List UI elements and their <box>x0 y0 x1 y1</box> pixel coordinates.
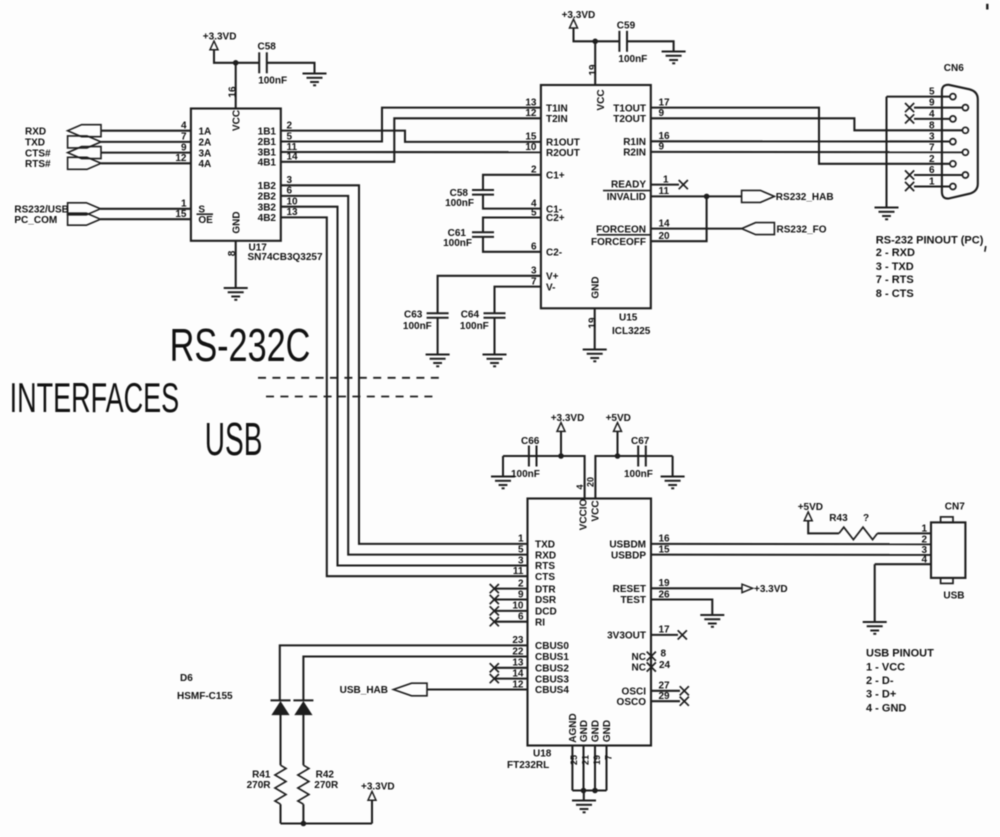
svg-text:3: 3 <box>929 132 935 143</box>
svg-text:25: 25 <box>569 755 579 765</box>
svg-text:C59: C59 <box>617 21 636 32</box>
svg-text:1B2: 1B2 <box>258 181 277 192</box>
svg-text:3A: 3A <box>199 148 212 159</box>
svg-text:CTS#: CTS# <box>25 148 51 159</box>
svg-text:R42: R42 <box>316 770 335 781</box>
svg-text:8: 8 <box>661 648 667 659</box>
svg-text:8: 8 <box>929 120 935 131</box>
svg-text:INTERFACES: INTERFACES <box>10 374 180 421</box>
svg-text:3: 3 <box>518 555 524 566</box>
svg-text:C66: C66 <box>521 436 540 447</box>
svg-text:4B1: 4B1 <box>258 158 277 169</box>
svg-text:V+: V+ <box>546 272 559 283</box>
svg-text:U18: U18 <box>533 749 552 760</box>
svg-text:DSR: DSR <box>535 595 557 606</box>
svg-text:HSMF-C155: HSMF-C155 <box>177 691 233 702</box>
svg-text:OE: OE <box>198 215 213 226</box>
svg-text:11: 11 <box>513 566 524 577</box>
svg-text:12: 12 <box>525 108 537 119</box>
svg-text:100nF: 100nF <box>618 54 647 65</box>
svg-text:100nF: 100nF <box>445 198 474 209</box>
svg-text:6: 6 <box>929 165 935 176</box>
svg-text:R41: R41 <box>252 770 271 781</box>
svg-text:?: ? <box>863 513 869 524</box>
svg-text:RTS: RTS <box>535 561 555 572</box>
svg-text:19: 19 <box>588 317 599 329</box>
svg-text:TEST: TEST <box>620 595 646 606</box>
svg-text:NC: NC <box>632 663 646 674</box>
svg-text:13: 13 <box>525 97 537 108</box>
svg-text:GND: GND <box>591 720 602 742</box>
svg-text:8: 8 <box>227 250 238 256</box>
svg-text:+3.3VD: +3.3VD <box>562 10 596 21</box>
svg-text:2: 2 <box>929 154 935 165</box>
svg-text:4B2: 4B2 <box>258 213 277 224</box>
svg-text:4A: 4A <box>199 159 212 170</box>
svg-text:RS232/USB: RS232/USB <box>14 204 68 215</box>
svg-text:T1IN: T1IN <box>546 103 568 114</box>
svg-text:19: 19 <box>588 64 599 76</box>
svg-text:CN7: CN7 <box>945 502 965 513</box>
svg-text:R2IN: R2IN <box>623 148 646 159</box>
svg-text:DCD: DCD <box>535 607 557 618</box>
svg-text:GND: GND <box>602 720 613 742</box>
svg-text:C63: C63 <box>404 309 423 320</box>
svg-text:RI: RI <box>535 617 545 628</box>
svg-text:7: 7 <box>181 132 187 143</box>
svg-text:100nF: 100nF <box>460 321 489 332</box>
svg-text:1: 1 <box>518 534 524 545</box>
svg-text:DTR: DTR <box>535 584 556 595</box>
svg-text:OSCI: OSCI <box>622 687 647 698</box>
svg-text:24: 24 <box>659 660 671 671</box>
svg-text:RESET: RESET <box>613 584 646 595</box>
svg-text:2A: 2A <box>199 138 212 149</box>
svg-text:100nF: 100nF <box>443 238 472 249</box>
svg-text:USB PINOUT: USB PINOUT <box>866 648 934 660</box>
svg-text:TXD: TXD <box>535 540 555 551</box>
svg-text:4: 4 <box>575 484 585 489</box>
svg-text:R43: R43 <box>829 513 848 524</box>
svg-text:+3.3VD: +3.3VD <box>551 413 585 424</box>
svg-text:V-: V- <box>546 282 555 293</box>
svg-text:10: 10 <box>525 142 537 153</box>
svg-text:VCCIO: VCCIO <box>579 498 590 530</box>
svg-text:3V3OUT: 3V3OUT <box>607 631 646 642</box>
svg-text:4: 4 <box>921 554 927 565</box>
svg-text:2B2: 2B2 <box>258 192 277 203</box>
svg-text:CN6: CN6 <box>944 63 964 74</box>
svg-text:4: 4 <box>181 121 187 132</box>
svg-text:RS-232C: RS-232C <box>170 319 311 371</box>
svg-text:8 - CTS: 8 - CTS <box>876 288 914 300</box>
svg-text:USBDP: USBDP <box>611 550 646 561</box>
svg-text:9: 9 <box>181 142 187 153</box>
svg-text:2B1: 2B1 <box>258 137 277 148</box>
svg-text:5: 5 <box>518 544 524 555</box>
svg-text:1A: 1A <box>199 126 212 137</box>
svg-text:READY: READY <box>611 180 646 191</box>
svg-text:USB: USB <box>943 590 964 601</box>
svg-text:+3.3VD: +3.3VD <box>203 32 237 43</box>
svg-text:100nF: 100nF <box>403 321 432 332</box>
svg-text:C64: C64 <box>461 309 480 320</box>
svg-text:USB_HAB: USB_HAB <box>340 685 388 696</box>
svg-text:7: 7 <box>929 142 935 153</box>
svg-text:270R: 270R <box>314 780 339 791</box>
svg-text:1: 1 <box>181 199 187 210</box>
svg-text:4 - GND: 4 - GND <box>866 702 906 714</box>
svg-text:RS232_HAB: RS232_HAB <box>776 192 834 203</box>
svg-text:NC: NC <box>632 652 646 663</box>
svg-text:15: 15 <box>175 209 187 220</box>
svg-text:C58: C58 <box>258 42 277 53</box>
svg-text:7 - RTS: 7 - RTS <box>876 274 914 286</box>
svg-text:1B1: 1B1 <box>258 126 277 137</box>
svg-text:16: 16 <box>227 86 238 98</box>
svg-text:1: 1 <box>929 177 935 188</box>
svg-text:RS-232 PINOUT (PC): RS-232 PINOUT (PC) <box>876 234 984 246</box>
svg-text:+3.3VD: +3.3VD <box>361 782 395 793</box>
svg-text:R1IN: R1IN <box>623 137 646 148</box>
svg-text:C2-: C2- <box>546 248 562 259</box>
svg-text:ICL3225: ICL3225 <box>612 326 651 337</box>
svg-text:21: 21 <box>580 755 590 765</box>
svg-text:5: 5 <box>929 87 935 98</box>
svg-text:20: 20 <box>586 477 596 487</box>
svg-text:7: 7 <box>603 755 613 760</box>
svg-text:CBUS4: CBUS4 <box>535 685 569 696</box>
svg-text:3 - D+: 3 - D+ <box>866 689 896 701</box>
svg-text:T1OUT: T1OUT <box>613 103 646 114</box>
svg-text:12: 12 <box>175 153 187 164</box>
svg-text:VCC: VCC <box>596 89 607 110</box>
svg-text:SN74CB3Q3257: SN74CB3Q3257 <box>248 252 323 263</box>
svg-text:+3.3VD: +3.3VD <box>754 584 788 595</box>
svg-text:RS232_FO: RS232_FO <box>777 224 827 235</box>
svg-text:RTS#: RTS# <box>25 159 51 170</box>
svg-text:100nF: 100nF <box>624 469 653 480</box>
svg-text:3 - TXD: 3 - TXD <box>876 261 914 273</box>
svg-text:USB: USB <box>205 413 263 465</box>
svg-text:OSCO: OSCO <box>617 697 647 708</box>
svg-text:USBDM: USBDM <box>609 540 646 551</box>
svg-text:T2IN: T2IN <box>546 114 568 125</box>
svg-text:VCC: VCC <box>591 500 602 521</box>
svg-text:C2+: C2+ <box>546 213 565 224</box>
svg-text:T2OUT: T2OUT <box>613 114 646 125</box>
svg-text:AGND: AGND <box>568 713 579 742</box>
svg-text:INVALID: INVALID <box>607 192 646 203</box>
svg-text:4: 4 <box>929 109 935 120</box>
svg-text:100nF: 100nF <box>258 76 287 87</box>
svg-text:9: 9 <box>929 98 935 109</box>
svg-text:RXD: RXD <box>535 550 556 561</box>
svg-text:TXD: TXD <box>25 138 45 149</box>
svg-text:D6: D6 <box>180 673 193 684</box>
svg-text:270R: 270R <box>247 780 272 791</box>
svg-text:2 - D-: 2 - D- <box>866 675 894 687</box>
svg-text:GND: GND <box>232 211 243 233</box>
svg-text:FORCEOFF: FORCEOFF <box>591 237 646 248</box>
svg-text:3B2: 3B2 <box>258 202 277 213</box>
svg-text:CTS: CTS <box>535 572 555 583</box>
svg-text:2 - RXD: 2 - RXD <box>876 247 915 259</box>
svg-text:U15: U15 <box>619 313 638 324</box>
svg-text:RXD: RXD <box>25 126 46 137</box>
svg-text:1: 1 <box>921 524 927 535</box>
svg-text:CBUS2: CBUS2 <box>535 664 569 675</box>
svg-text:PC_COM: PC_COM <box>14 215 57 226</box>
svg-text:C67: C67 <box>631 436 650 447</box>
svg-text:R2OUT: R2OUT <box>546 148 580 159</box>
svg-text:GND: GND <box>590 276 601 298</box>
svg-text:C1+: C1+ <box>546 171 565 182</box>
svg-text:FORCEON: FORCEON <box>596 224 646 235</box>
svg-text:CBUS3: CBUS3 <box>535 674 569 685</box>
svg-text:VCC: VCC <box>232 110 243 131</box>
svg-text:FT232RL: FT232RL <box>507 760 549 771</box>
svg-text:1 - VCC: 1 - VCC <box>866 661 905 673</box>
svg-text:2: 2 <box>921 534 927 545</box>
svg-text:100nF: 100nF <box>511 469 540 480</box>
svg-text:19: 19 <box>592 755 602 765</box>
svg-text:GND: GND <box>579 720 590 742</box>
svg-text:+5VD: +5VD <box>798 502 823 513</box>
svg-text:CBUS1: CBUS1 <box>535 652 569 663</box>
svg-text:CBUS0: CBUS0 <box>535 641 569 652</box>
